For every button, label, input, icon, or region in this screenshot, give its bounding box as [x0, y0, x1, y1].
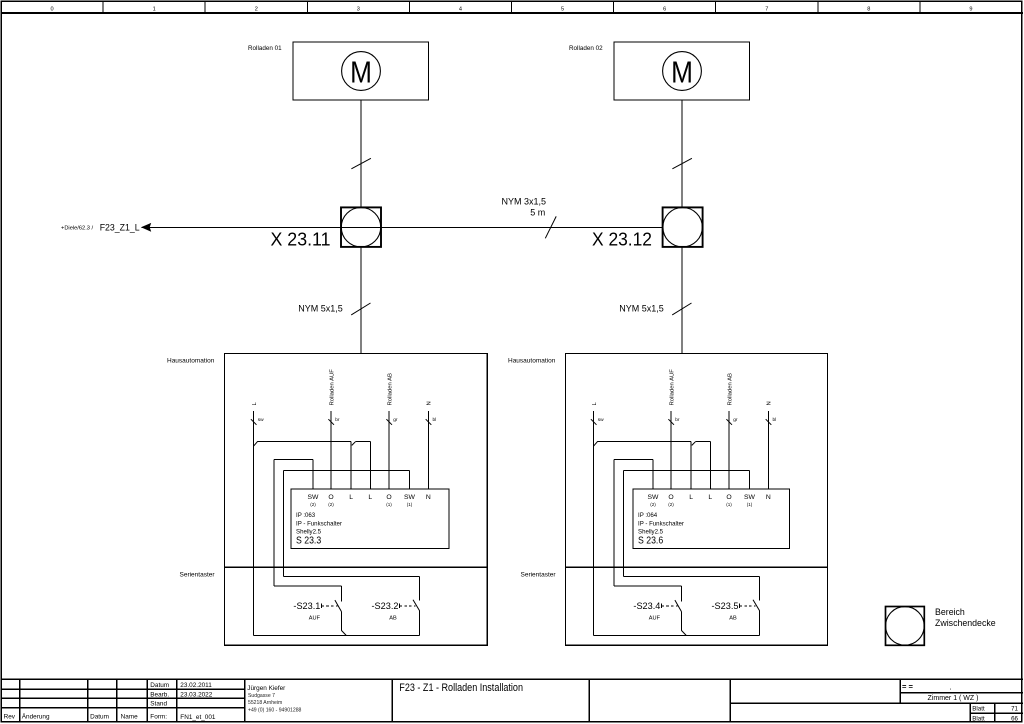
svg-text:IP - Funkschalter: IP - Funkschalter [638, 520, 684, 527]
wire SW(2) to button AUF [312, 460, 314, 489]
svg-text:(1): (1) [407, 502, 413, 507]
core slash gr [726, 419, 732, 425]
core slash sw [251, 419, 257, 425]
motor M circle Rolladen 02 [663, 52, 702, 91]
motor box Rolladen 02 [614, 42, 750, 100]
svg-text:NYM 5x1,5: NYM 5x1,5 [298, 303, 343, 313]
svg-text:Serientaster: Serientaster [180, 572, 216, 579]
core slash sw [591, 419, 597, 425]
svg-text:0: 0 [50, 6, 53, 12]
junction tap to button AUF [341, 630, 346, 635]
terminal X 23.11 square [341, 207, 381, 247]
svg-text:SW: SW [404, 494, 416, 501]
svg-text:O: O [726, 494, 731, 501]
svg-text:L: L [689, 494, 693, 501]
svg-text:71: 71 [1011, 705, 1018, 712]
core wire sw [253, 411, 255, 636]
svg-text:(2): (2) [650, 502, 656, 507]
source arrow [141, 223, 151, 232]
svg-text:(1): (1) [726, 502, 732, 507]
svg-text:F23_Z1_L: F23_Z1_L [100, 222, 140, 232]
svg-text:5 m: 5 m [530, 208, 545, 218]
svg-text:9: 9 [969, 6, 972, 12]
svg-text:5: 5 [561, 6, 564, 12]
wire L to button commons [254, 635, 420, 637]
svg-text:AB: AB [729, 616, 737, 622]
Shelly relay S 23.6 box [633, 489, 790, 549]
top ruler line [1, 12, 1023, 14]
svg-text:23.03.2022: 23.03.2022 [180, 691, 212, 698]
svg-text:Rev: Rev [4, 714, 16, 721]
terminal X 23.12 circle [663, 208, 702, 247]
terminal X 23.12 square [663, 207, 703, 247]
svg-text:SW: SW [744, 494, 756, 501]
svg-text:Hausautomation: Hausautomation [508, 357, 556, 364]
svg-text:L: L [349, 494, 353, 501]
wire SW(1) to button AB [409, 471, 411, 489]
svg-text:Rolladen AB: Rolladen AB [387, 373, 393, 405]
core slash gr [386, 419, 392, 425]
svg-text:Datum: Datum [150, 682, 169, 689]
motor M circle Rolladen 01 [342, 52, 381, 91]
svg-text:Hausautomation: Hausautomation [167, 357, 215, 364]
svg-text:L: L [708, 494, 712, 501]
svg-text:Sudgasse 7: Sudgasse 7 [248, 693, 275, 699]
svg-text:SW: SW [648, 494, 660, 501]
svg-text:sw: sw [598, 418, 604, 423]
wire SW(1) to button AB [749, 471, 751, 489]
cable slash on motor2 wire [672, 158, 692, 169]
svg-text:bl: bl [773, 417, 777, 423]
terminal X 23.11 circle [341, 208, 380, 247]
core wire bl [427, 411, 429, 489]
cable slash on motor1 wire [351, 158, 371, 169]
core slash br [668, 419, 674, 425]
svg-text:Rolladen 02: Rolladen 02 [569, 45, 603, 52]
svg-text:-S23.5: -S23.5 [712, 601, 739, 612]
wire motor2 to X23.12 [681, 100, 683, 207]
svg-text:2: 2 [255, 6, 258, 12]
core wire br [670, 411, 672, 489]
legend symbol Bereich Zwischendecke [886, 607, 925, 646]
svg-text:4: 4 [459, 6, 462, 12]
svg-text:(2): (2) [310, 502, 316, 507]
svg-text:gr: gr [733, 417, 738, 423]
title block texts [4, 682, 216, 721]
cable slash NYM 3x1,5 [545, 216, 556, 238]
svg-text:55218 Arnheim: 55218 Arnheim [248, 700, 282, 706]
svg-text:Rolladen AUF: Rolladen AUF [669, 369, 675, 406]
svg-text:IP - Funkschalter: IP - Funkschalter [296, 520, 342, 527]
svg-text:23.02.2011: 23.02.2011 [180, 682, 212, 689]
svg-text:(1): (1) [747, 502, 753, 507]
svg-text:Name: Name [121, 714, 138, 721]
svg-text:IP :064: IP :064 [638, 512, 658, 519]
svg-text:M: M [671, 56, 693, 90]
module 2 section divider [566, 566, 828, 568]
svg-text:O: O [386, 494, 391, 501]
svg-text:L: L [368, 494, 372, 501]
svg-text:sw: sw [258, 418, 264, 423]
svg-text:O: O [668, 494, 673, 501]
svg-text:Zimmer 1 ( WZ ): Zimmer 1 ( WZ ) [928, 695, 979, 702]
svg-text:AUF: AUF [649, 616, 661, 622]
top ruler ticks and numbers [1, 1, 1022, 13]
svg-text:7: 7 [765, 6, 768, 12]
svg-text:SW: SW [308, 494, 320, 501]
svg-text:.: . [950, 682, 952, 691]
core wire gr [728, 411, 730, 489]
module 1 section divider [225, 566, 488, 568]
svg-text:(2): (2) [668, 502, 674, 507]
svg-text:+Diele/62.3 /: +Diele/62.3 / [61, 225, 94, 231]
module 1 Hausautomation box [225, 354, 488, 646]
svg-text:M: M [350, 56, 372, 90]
svg-text:AUF: AUF [309, 616, 321, 622]
cable slash [672, 303, 691, 315]
svg-text:-S23.2: -S23.2 [372, 601, 399, 612]
core slash br [328, 419, 334, 425]
wire motor1 to X23.11 [360, 100, 362, 207]
svg-text:N: N [426, 494, 431, 501]
svg-text:Bereich: Bereich [935, 607, 965, 617]
core wire gr [388, 411, 390, 489]
junction tap to button AUF [681, 630, 686, 635]
svg-text:Blatt: Blatt [972, 715, 985, 722]
svg-text:1: 1 [153, 6, 156, 12]
svg-text:S 23.3: S 23.3 [296, 535, 322, 546]
svg-text:S 23.6: S 23.6 [638, 535, 664, 546]
svg-text:(1): (1) [386, 502, 392, 507]
wire L to button commons [594, 635, 760, 637]
svg-text:Zwischendecke: Zwischendecke [935, 618, 996, 628]
push button -S23.2 AB [419, 576, 421, 600]
svg-text:+49 (0) 160 - 94901288: +49 (0) 160 - 94901288 [248, 707, 302, 713]
svg-text:-S23.4: -S23.4 [633, 601, 661, 612]
svg-text:X 23.12: X 23.12 [592, 229, 652, 249]
svg-text:Bearb.: Bearb. [150, 691, 169, 698]
svg-text:Stand: Stand [150, 701, 167, 708]
svg-text:Rolladen AUF: Rolladen AUF [329, 369, 335, 406]
svg-text:bl: bl [433, 417, 437, 423]
svg-text:Änderung: Änderung [22, 713, 50, 721]
svg-text:X 23.11: X 23.11 [271, 229, 331, 249]
core wire bl [767, 411, 769, 489]
svg-text:Blatt: Blatt [972, 705, 985, 712]
svg-text:AB: AB [389, 616, 397, 622]
module 2 Hausautomation box [566, 354, 828, 646]
wire X23.11 to module 1 (NYM 5x1,5) [360, 247, 362, 354]
wire branch to second L terminal [692, 441, 696, 445]
wire branch to second L terminal [352, 441, 356, 445]
svg-text:Form:: Form: [150, 714, 167, 721]
Shelly terminal labels [648, 494, 771, 501]
push button -S23.1 AUF [340, 586, 342, 601]
svg-text:gr: gr [393, 417, 398, 423]
core wire sw [593, 411, 595, 636]
svg-text:Shelly2.5: Shelly2.5 [638, 528, 664, 535]
svg-text:N: N [427, 401, 433, 405]
svg-text:N: N [766, 494, 771, 501]
cable slash [351, 303, 370, 315]
svg-text:O: O [328, 494, 333, 501]
Shelly terminal labels [308, 494, 431, 501]
svg-text:br: br [335, 417, 340, 423]
svg-text:F23 - Z1 - Rolladen Installati: F23 - Z1 - Rolladen Installation [399, 682, 523, 694]
svg-text:IP :063: IP :063 [296, 512, 316, 519]
push button -S23.5 AB [759, 576, 761, 600]
svg-text:= =: = = [902, 682, 914, 691]
svg-text:Rolladen 01: Rolladen 01 [248, 45, 282, 52]
svg-text:8: 8 [867, 6, 870, 12]
push button -S23.4 AUF [680, 586, 682, 601]
Shelly relay S 23.3 box [291, 489, 449, 549]
svg-text:Serientaster: Serientaster [521, 572, 557, 579]
svg-text:N: N [767, 401, 773, 405]
svg-text:Shelly2.5: Shelly2.5 [296, 528, 322, 535]
title block lines [1, 679, 1023, 722]
core wire br [330, 411, 332, 489]
core slash bl [426, 419, 432, 425]
svg-text:br: br [675, 417, 680, 423]
svg-text:NYM 5x1,5: NYM 5x1,5 [619, 303, 664, 313]
svg-text:6: 6 [663, 6, 666, 12]
svg-text:66: 66 [1011, 715, 1018, 722]
horizontal feed wire F23_Z1_L to X23.12 [142, 226, 663, 228]
svg-text:3: 3 [357, 6, 360, 12]
svg-text:FN1_et_001: FN1_et_001 [180, 714, 216, 721]
svg-text:Jürgen Kiefer: Jürgen Kiefer [247, 685, 286, 692]
svg-text:Rolladen AB: Rolladen AB [727, 373, 733, 405]
svg-text:-S23.1: -S23.1 [293, 601, 320, 612]
wire branch from L core to L terminals [254, 441, 258, 446]
wire X23.12 to module 2 (NYM 5x1,5) [681, 247, 683, 354]
core slash bl [766, 419, 772, 425]
wire branch from L core to L terminals [594, 441, 598, 446]
wire SW(2) to button AUF [652, 460, 654, 489]
motor box Rolladen 01 [293, 42, 429, 100]
svg-text:(2): (2) [328, 502, 334, 507]
svg-text:Datum: Datum [90, 714, 109, 721]
svg-text:NYM 3x1,5: NYM 3x1,5 [502, 197, 547, 207]
